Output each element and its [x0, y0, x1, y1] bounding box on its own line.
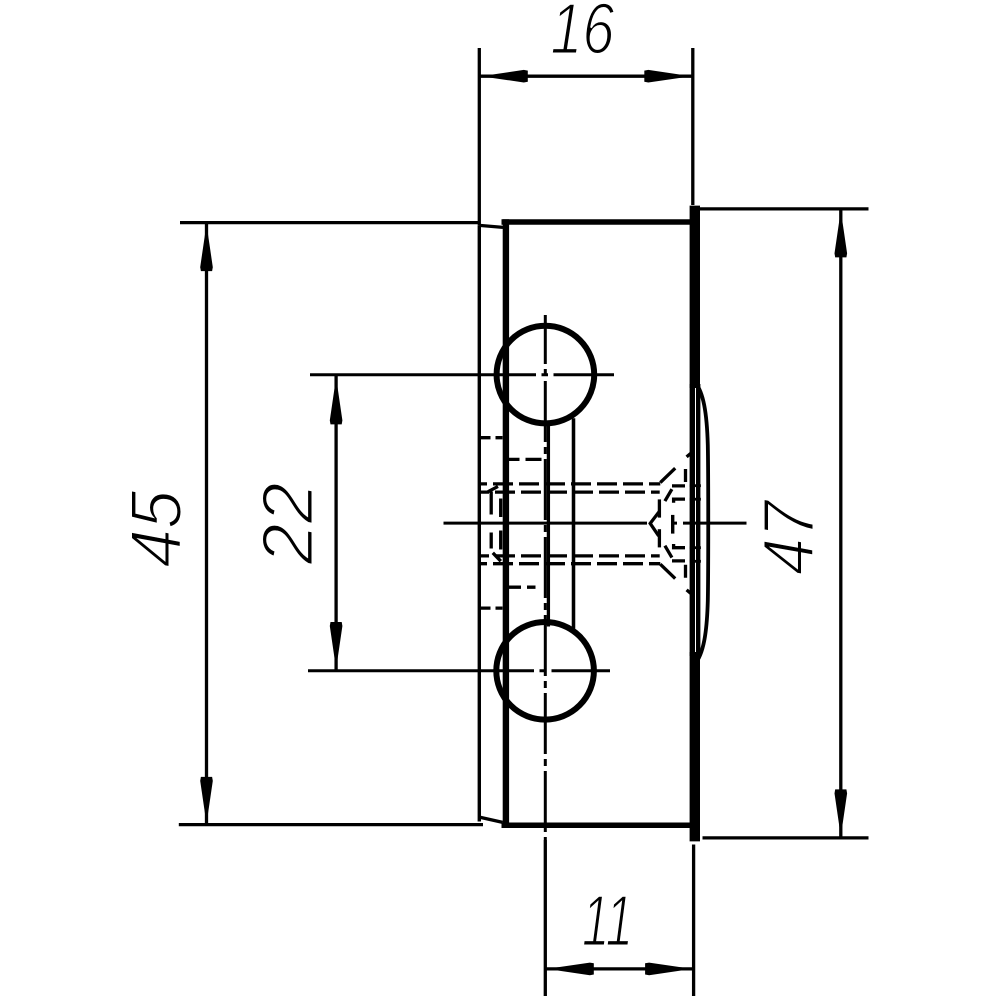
- lip hidden dash top: [480, 436, 503, 439]
- dim 11 arrow right: [645, 963, 692, 976]
- dim 16 arrow left: [481, 70, 528, 83]
- bottom hole horizontal centerline: [308, 669, 610, 672]
- screw head bracket top: [665, 486, 685, 503]
- screw cone apex: [650, 512, 659, 536]
- part top edge: [502, 219, 692, 225]
- washer left face line: [696, 384, 700, 656]
- head hidden vertical dashes: [684, 469, 687, 578]
- dim 47 arrow top: [835, 210, 848, 257]
- dim 45 extension top: [180, 221, 480, 224]
- dim 22 line: [334, 376, 337, 671]
- top hole circle: [497, 326, 595, 424]
- apex vertical dash top: [658, 499, 661, 517]
- screw tip hidden vertical b: [499, 499, 502, 550]
- slot left line: [547, 426, 550, 627]
- apex vertical dash bottom: [658, 529, 661, 547]
- dim 47 arrow bottom: [835, 789, 848, 836]
- screw tip chamfer top: [488, 486, 498, 491]
- left profile outline: [478, 226, 481, 822]
- screw tip chamfer bottom: [493, 553, 501, 561]
- dim 11 extension left: [544, 840, 547, 996]
- dim 16 extension right: [691, 48, 694, 205]
- part right edge thick top merged: [690, 206, 700, 388]
- svg-text:16: 16: [550, 0, 615, 69]
- washer rung y499: [690, 498, 701, 501]
- washer bulge arc: [695, 382, 708, 664]
- svg-text:11: 11: [582, 882, 633, 962]
- part bottom edge: [502, 823, 692, 829]
- axis cross tick: [671, 515, 674, 534]
- dim 16 arrow right: [644, 70, 691, 83]
- thread minor top hidden line: [481, 490, 660, 493]
- part right edge thick: [690, 384, 695, 656]
- dim 11 line: [545, 967, 693, 970]
- thread major top hidden line: [481, 482, 660, 485]
- part right edge thick bottom merged: [690, 652, 700, 841]
- dim 47 line: [839, 209, 842, 838]
- dim 45 arrow bottom: [200, 777, 213, 824]
- svg-text:22: 22: [248, 483, 328, 566]
- top hole horizontal centerline: [310, 373, 614, 376]
- inner hidden dash top: [504, 458, 544, 461]
- lip hidden dash bottom: [480, 606, 503, 609]
- dim 22 arrow bottom: [330, 622, 343, 669]
- inner hidden dash bottom: [505, 586, 536, 589]
- screw axis centerline: [444, 522, 747, 525]
- countersink upper slant: [660, 452, 692, 482]
- part left edge thick: [503, 219, 509, 828]
- thread minor bottom hidden line: [481, 554, 660, 557]
- dim 22 arrow top: [330, 377, 343, 424]
- dim 45 arrow top: [200, 224, 213, 271]
- dim 45 line: [205, 223, 208, 826]
- dim 11 arrow left: [547, 963, 594, 976]
- screw head bracket bottom: [665, 544, 685, 561]
- bottom hole circle: [496, 622, 594, 720]
- slot right line: [572, 418, 576, 628]
- dim 45 extension bottom: [179, 823, 483, 826]
- svg-text:47: 47: [749, 498, 829, 575]
- thread major bottom hidden line: [481, 562, 660, 565]
- washer rung y561: [690, 560, 701, 563]
- bottom chamfer: [481, 817, 503, 822]
- svg-text:45: 45: [117, 490, 197, 568]
- washer rung y486: [690, 484, 701, 487]
- dim 47 extension top: [700, 207, 869, 210]
- dim 16 extension left: [478, 48, 481, 226]
- top chamfer: [479, 225, 503, 227]
- dim 47 extension bottom: [703, 836, 869, 839]
- dim 16 line: [479, 75, 693, 78]
- dim 11 extension right: [692, 845, 695, 997]
- screw tip hidden vertical a: [490, 492, 493, 549]
- vertical centerline: [544, 315, 547, 840]
- countersink lower slant: [660, 564, 692, 594]
- washer rung y548: [690, 546, 701, 549]
